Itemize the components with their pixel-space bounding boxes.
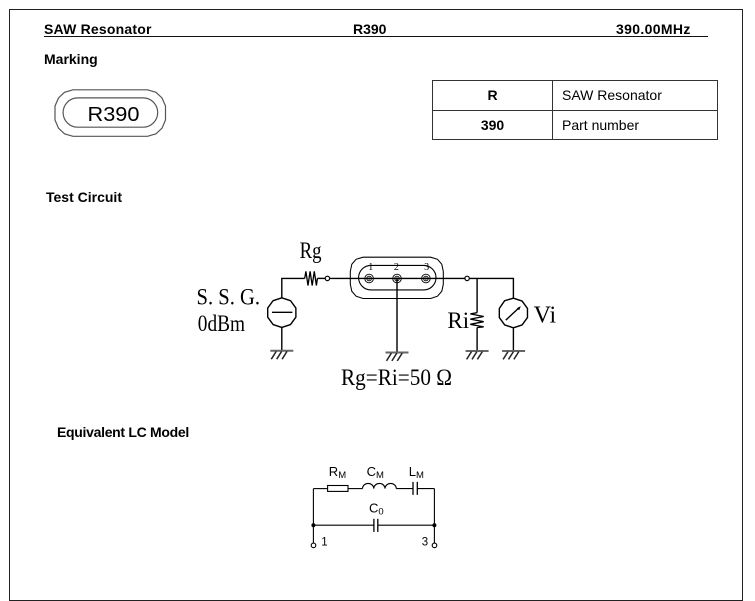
wire LM to right corner	[417, 488, 434, 490]
section label: Equivalent LC Model	[57, 424, 189, 440]
svg-text:3: 3	[422, 537, 428, 549]
svg-text:Rg=Ri=50 Ω: Rg=Ri=50 Ω	[341, 365, 452, 390]
capacitor LM plates	[413, 482, 417, 495]
resistor Ri zigzag	[470, 313, 483, 328]
wire Ri to ground	[476, 328, 478, 351]
svg-text:1: 1	[321, 537, 327, 549]
svg-text:0dBm: 0dBm	[198, 311, 245, 336]
wire right vertical	[433, 489, 435, 526]
resistor Rg zigzag	[305, 271, 318, 285]
pin 1	[365, 274, 374, 283]
wire pin2 to ground	[396, 279, 398, 353]
section label: Marking	[44, 51, 98, 67]
header right: 390.00MHz	[616, 21, 691, 37]
wire node to Vi corner	[469, 278, 513, 298]
node terminal circle right	[465, 276, 469, 280]
wire bottom right	[378, 524, 435, 526]
svg-text:CM: CM	[367, 464, 384, 481]
section label: Test Circuit	[46, 189, 122, 205]
svg-text:R390: R390	[88, 104, 140, 126]
marking outer package outline	[55, 90, 166, 137]
source SG1 circle	[268, 298, 296, 328]
wire source bottom to ground	[281, 327, 283, 350]
svg-text:LM: LM	[409, 464, 424, 481]
terminal 1 circle	[311, 543, 316, 548]
svg-text:Vi: Vi	[534, 303, 557, 329]
ground under Ri	[466, 351, 489, 359]
marking inner stadium outline	[63, 98, 158, 127]
test circuit schematic	[185, 230, 560, 395]
svg-text:3: 3	[424, 262, 429, 273]
svg-text:Ri: Ri	[447, 308, 469, 333]
marking package drawing	[48, 84, 173, 144]
svg-text:RM: RM	[329, 464, 346, 481]
ground under pin2	[386, 353, 409, 361]
marking legend table	[432, 80, 718, 140]
header rule	[44, 36, 708, 37]
SAW package inner stadium	[359, 265, 436, 290]
header center: R390	[353, 21, 386, 37]
ground under Vi	[502, 351, 525, 359]
stub to terminal 1	[312, 525, 314, 543]
wire RM to CM	[348, 488, 363, 490]
inductor CM coil	[363, 483, 397, 488]
wire junction to resistor Ri	[476, 278, 478, 312]
wire top left	[313, 488, 327, 490]
resistor RM box	[328, 486, 348, 492]
stub to terminal 3	[433, 525, 435, 543]
svg-text:1: 1	[368, 262, 373, 273]
wire Vi to ground	[512, 328, 514, 351]
junction dot right	[432, 523, 436, 527]
junction dot left	[311, 523, 315, 527]
header title: SAW Resonator	[44, 21, 152, 37]
wire left vertical	[312, 489, 314, 526]
voltmeter Vi circle	[499, 298, 527, 328]
svg-text:S. S. G.: S. S. G.	[197, 284, 261, 309]
terminal 3 circle	[432, 543, 437, 548]
wire Rg to node	[317, 277, 325, 279]
equivalent LC model schematic	[300, 455, 460, 560]
SAW package outer outline	[350, 257, 443, 298]
wire CM to LM	[396, 488, 413, 490]
svg-text:2: 2	[394, 262, 399, 273]
wire source top to resistor Rg	[282, 278, 305, 297]
pin 2	[393, 274, 402, 283]
wire bottom left	[313, 524, 374, 526]
ground under source	[270, 351, 293, 359]
pin 3	[422, 274, 431, 283]
svg-text:C0: C0	[369, 501, 384, 518]
svg-text:Rg: Rg	[300, 238, 322, 263]
node terminal circle left	[325, 276, 329, 280]
capacitor C0 plates	[374, 519, 378, 532]
marking text R390	[88, 104, 140, 126]
wire node to package pin1 through package	[330, 277, 465, 279]
